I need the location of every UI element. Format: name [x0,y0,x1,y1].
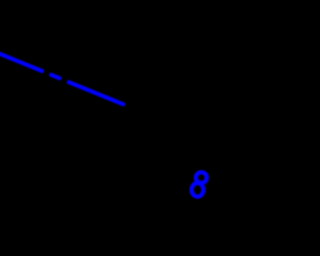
node: digit-8 bottom loop [192,183,204,197]
node: digit-8 top loop [196,172,207,183]
wire: long diagonal segment A (upper-left) [0,52,42,71]
wire: short dash segment B [51,75,59,78]
wire: diagonal segment C to tip [69,82,123,104]
